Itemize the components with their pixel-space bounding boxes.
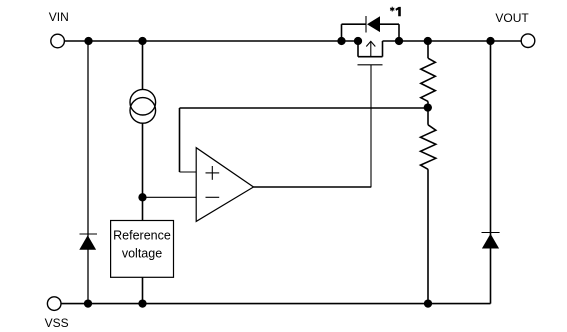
svg-text:voltage: voltage [122, 247, 162, 261]
svg-text:VOUT: VOUT [495, 11, 529, 25]
svg-text:Reference: Reference [113, 229, 171, 243]
svg-text:VSS: VSS [45, 316, 69, 330]
svg-text:VIN: VIN [49, 10, 69, 24]
